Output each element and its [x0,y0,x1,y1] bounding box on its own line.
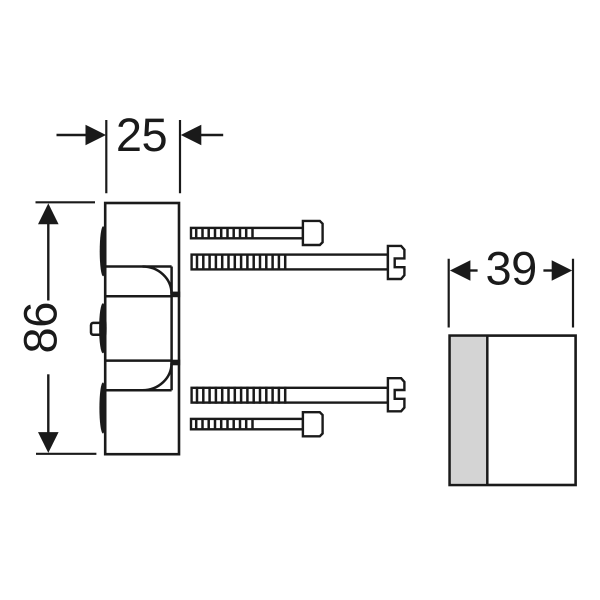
lower black seal bar [170,360,180,366]
bottom socket screw shaft [191,419,303,429]
dimension 86 lower line segment with down arrow [38,374,59,453]
dimension 39 right extension line [572,259,574,328]
top slotted screw threads [197,254,285,271]
top slotted screw shaft [192,255,388,270]
escutcheon gray wall strip [451,337,486,484]
svg-text:39: 39 [486,242,537,295]
upper quarter-circle arc [143,267,172,294]
dimension 86 top extension line [36,201,96,203]
dimension 86 upper line segment with up arrow [38,203,59,300]
top socket screw shaft [191,228,303,238]
body divider line 4 [105,389,171,392]
svg-text:86: 86 [14,302,67,353]
middle port ellipse [99,303,107,353]
body divider line 3 [105,359,171,362]
dimension 86 bottom extension line [36,453,96,455]
body outline [105,203,179,454]
bottom slotted screw threads [197,387,285,404]
dimension 39 left arrow and stub [450,260,478,281]
bottom port ellipse [99,383,106,434]
dimension 25 right arrow and line [181,125,223,146]
dimension 25 extension line right [179,120,181,193]
dimension 25 left arrow and line [57,125,107,146]
spindle tab [91,323,102,335]
top slotted screw head [388,246,405,279]
dimension 25 extension line left [105,120,107,193]
top socket screw threads [196,227,252,239]
upper black seal bar [170,292,180,298]
bottom socket screw head [303,412,323,436]
escutcheon divider line [486,336,489,485]
body inner right vertical line [170,267,173,391]
svg-text:25: 25 [116,108,167,161]
body divider line 2 [105,295,171,298]
top port ellipse [100,226,107,276]
dimension 39 right arrow and stub [543,260,572,281]
lower quarter-circle arc [143,363,172,390]
bottom slotted screw head [388,378,405,411]
bottom slotted screw shaft [192,388,388,403]
top socket screw head [303,221,323,245]
dimension 39 left extension line [448,259,450,328]
bottom socket screw threads [196,418,252,430]
escutcheon block body [450,336,576,485]
body divider line 1 [105,265,171,268]
